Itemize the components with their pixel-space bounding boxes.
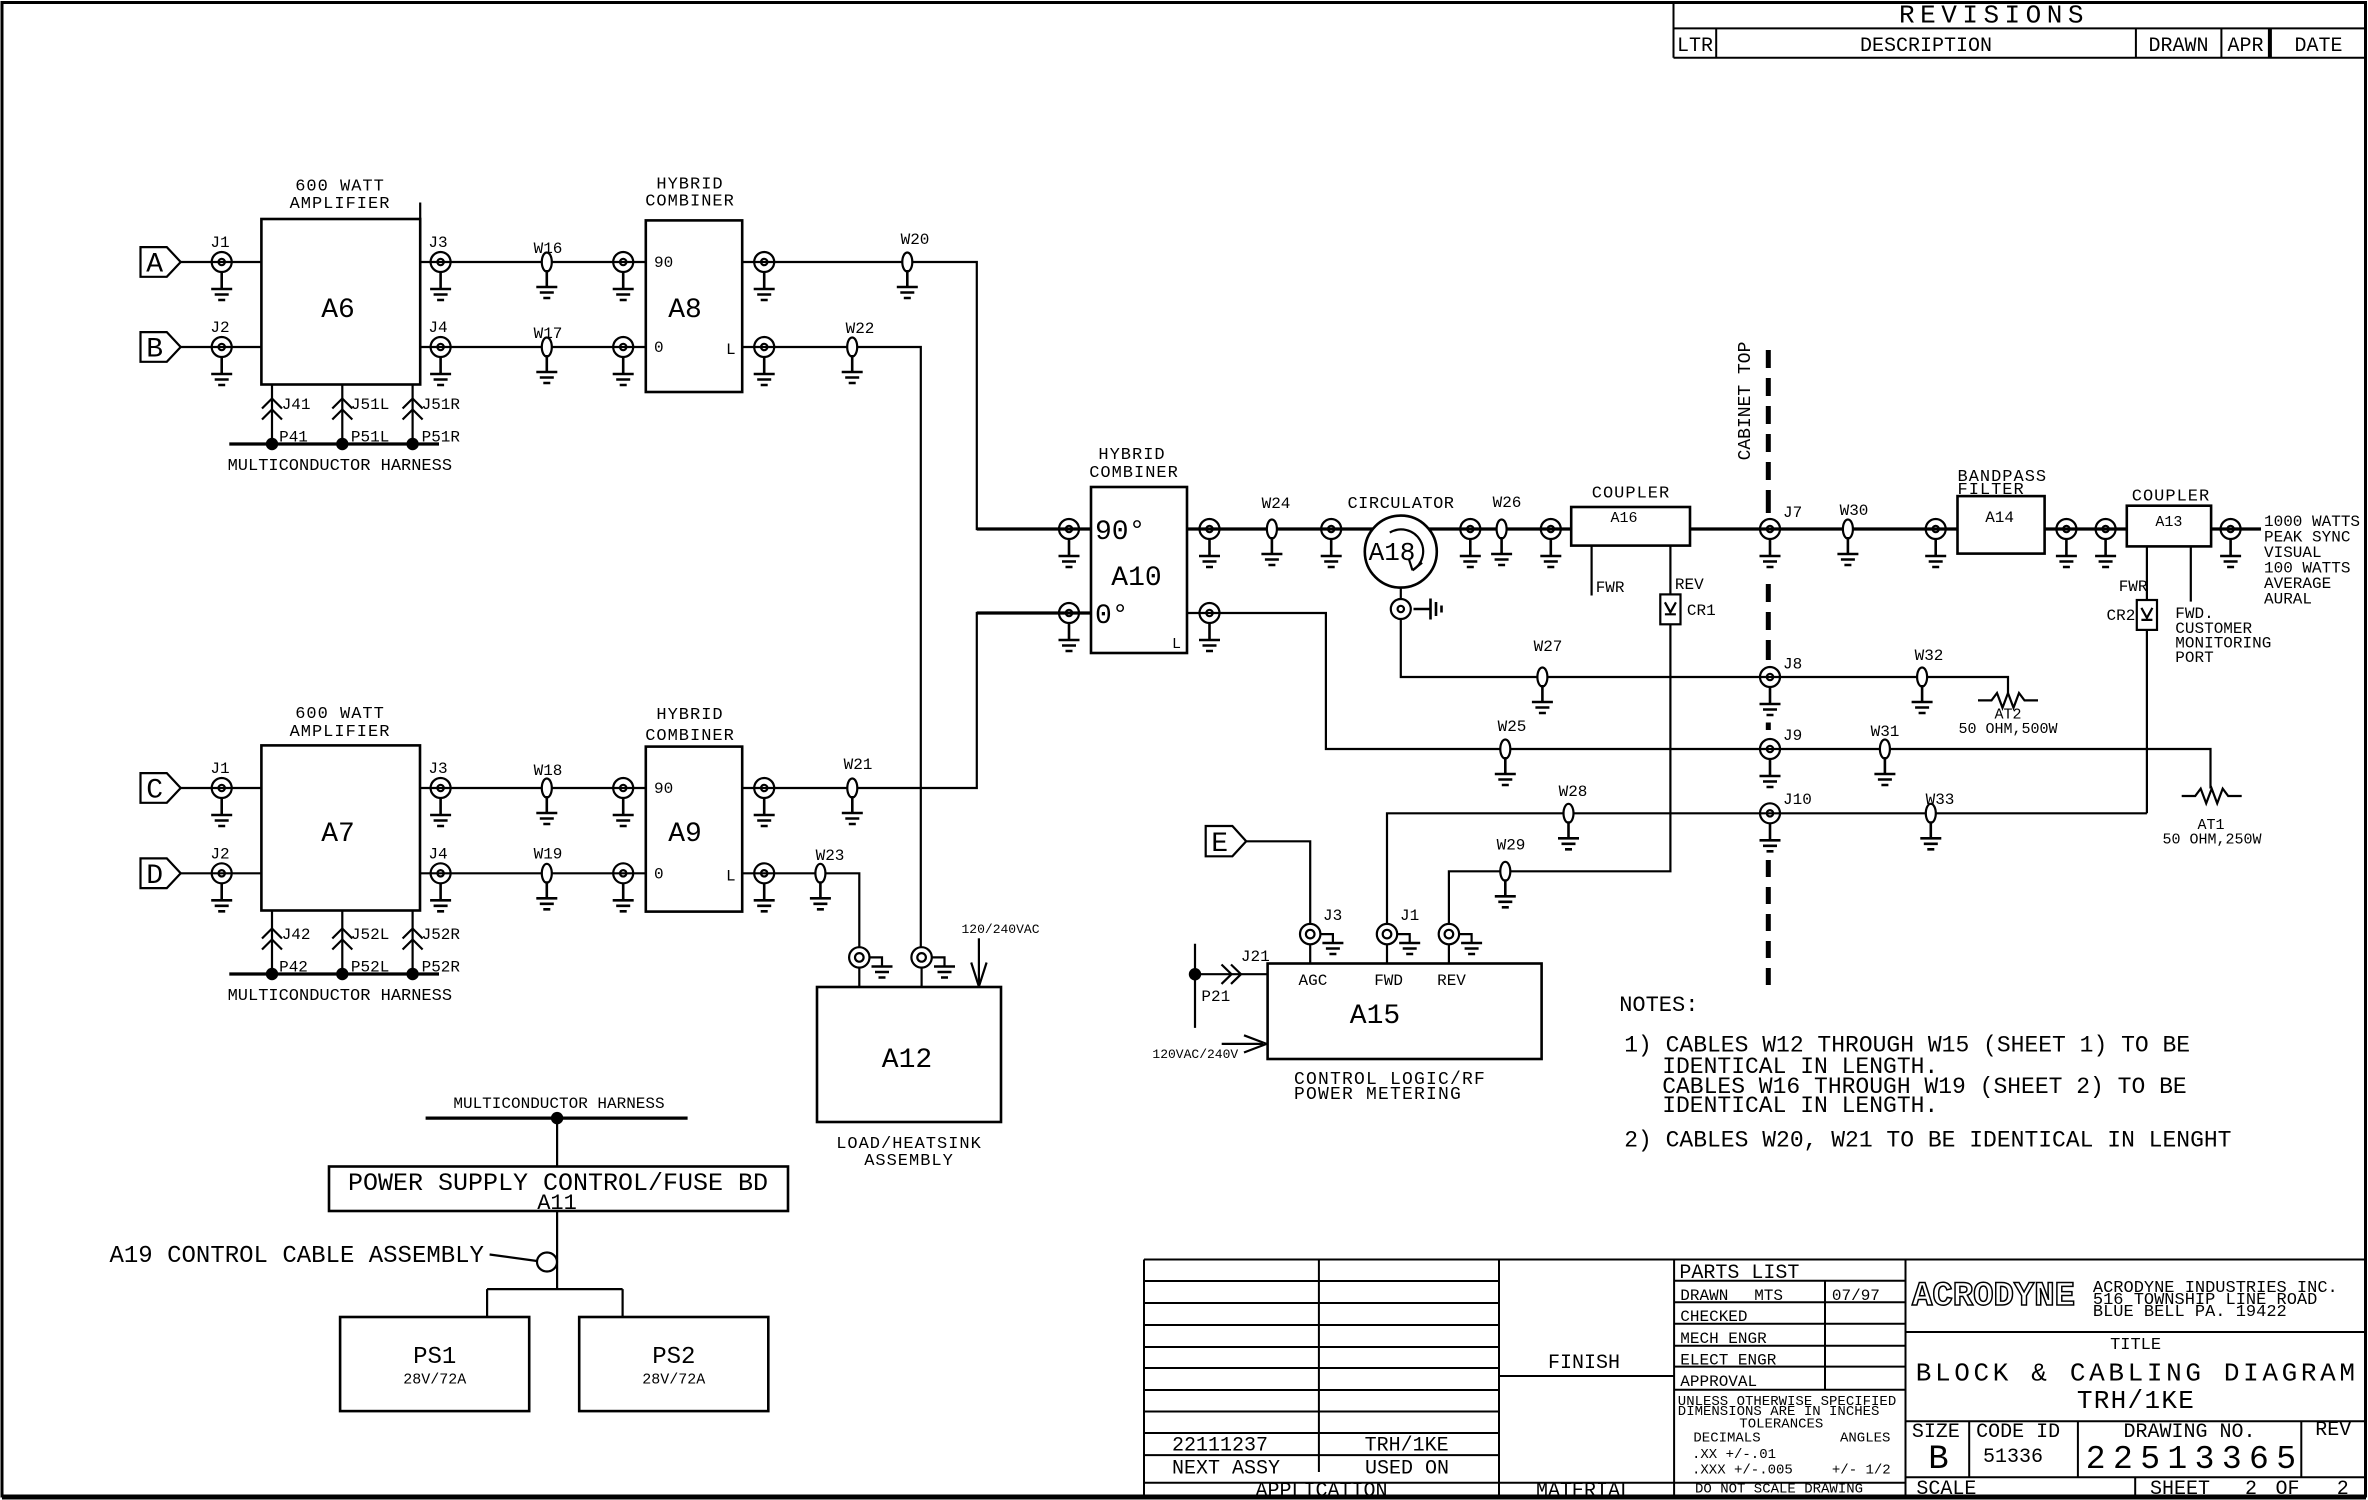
stem A15 REV to box	[1448, 944, 1450, 963]
junction on power harness	[551, 1112, 563, 1124]
svg-text:A10: A10	[1111, 563, 1161, 594]
svg-text:ASSEMBLY: ASSEMBLY	[864, 1152, 954, 1171]
svg-text:FWR: FWR	[1596, 579, 1625, 597]
svg-text:ANGLES: ANGLES	[1840, 1431, 1890, 1447]
svg-text:2: 2	[2245, 1478, 2257, 1500]
ground at W17	[536, 355, 557, 383]
svg-text:J42: J42	[282, 926, 311, 944]
svg-text:DECIMALS: DECIMALS	[1693, 1431, 1760, 1447]
svg-text:REV: REV	[1437, 972, 1466, 990]
connector at A10 0 input	[1059, 603, 1079, 623]
svg-text:J8: J8	[1783, 656, 1802, 674]
svg-text:J1: J1	[210, 760, 229, 778]
svg-text:90°: 90°	[1095, 517, 1145, 548]
cable W17	[534, 325, 563, 357]
svg-text:NOTES:: NOTES:	[1619, 993, 1698, 1018]
ground at connector before A14	[1925, 539, 1946, 567]
svg-text:REVISIONS: REVISIONS	[1899, 1, 2089, 31]
svg-text:W18: W18	[534, 762, 563, 780]
svg-text:J4: J4	[428, 845, 447, 863]
svg-text:.XX +/-.01: .XX +/-.01	[1692, 1447, 1776, 1463]
connector J42/P42	[262, 926, 311, 977]
stem A15 J1 to box	[1386, 944, 1388, 963]
amplifier A6	[261, 178, 420, 385]
coupler A16	[1571, 485, 1690, 546]
ground at A8 90 input connector	[613, 272, 634, 300]
cable W30	[1840, 502, 1869, 539]
junction at J51L	[336, 438, 348, 450]
ground at W18	[536, 796, 557, 824]
svg-text:MULTICONDUCTOR HARNESS: MULTICONDUCTOR HARNESS	[453, 1095, 664, 1113]
ground at connector after A14	[2056, 539, 2077, 567]
junction at J52L	[336, 968, 348, 980]
connector J1 (A7 input)	[210, 760, 231, 798]
A16 FWR stub	[1592, 546, 1625, 597]
connector J2 (A6 input)	[210, 319, 231, 357]
ground at J1	[211, 272, 232, 300]
svg-text:0°: 0°	[1095, 601, 1129, 632]
svg-text:W22: W22	[846, 320, 875, 338]
svg-text:22513365: 22513365	[2086, 1441, 2304, 1478]
svg-text:COMBINER: COMBINER	[645, 727, 735, 746]
ground at W30	[1837, 537, 1858, 565]
svg-text:DATE: DATE	[2294, 35, 2342, 58]
svg-text:A19 CONTROL CABLE ASSEMBLY: A19 CONTROL CABLE ASSEMBLY	[110, 1243, 484, 1270]
connector J41/P41	[262, 396, 311, 447]
control logic/RF power metering A15	[1268, 964, 1542, 1106]
circulator A18	[1347, 495, 1454, 588]
ground at J9	[1760, 759, 1781, 787]
svg-text:L: L	[726, 867, 736, 885]
svg-text:FINISH: FINISH	[1548, 1352, 1620, 1375]
wire E flag to A15 AGC input J3	[1246, 841, 1310, 924]
svg-text:LTR: LTR	[1677, 35, 1713, 58]
multiconductor harness bus (bottom)	[228, 974, 452, 1006]
svg-text:CR1: CR1	[1687, 602, 1716, 620]
svg-text:W24: W24	[1262, 495, 1291, 513]
svg-text:L: L	[726, 341, 736, 359]
connector J2 (A7 input)	[210, 845, 231, 883]
chassis ground at A15 J3	[1320, 934, 1333, 942]
svg-text:W33: W33	[1926, 791, 1955, 809]
cable W22	[846, 320, 875, 357]
ground at connector before A13	[2095, 539, 2116, 567]
connector J3 (A7 output)	[428, 760, 450, 798]
ground at W21	[842, 796, 863, 824]
svg-text:120/240VAC: 120/240VAC	[962, 922, 1040, 937]
svg-text:J1: J1	[210, 234, 229, 252]
chassis ground at A12 right connector	[932, 957, 945, 966]
wire circulator to coupler A16 (main RF)	[1429, 527, 1571, 530]
svg-text:.XXX +/-.005: .XXX +/-.005	[1692, 1463, 1793, 1479]
ground at W26	[1491, 537, 1512, 565]
svg-text:W26: W26	[1493, 494, 1522, 512]
120/240VAC feed arrow into A12	[962, 922, 1040, 987]
connector at A15 REV input	[1439, 924, 1459, 944]
svg-text:W30: W30	[1840, 502, 1869, 520]
ground at W24	[1261, 537, 1282, 565]
wire CR2 down to J10 row	[2146, 630, 2148, 813]
svg-text:90: 90	[654, 780, 673, 798]
connector at A10 90 output	[1200, 519, 1220, 539]
connector J3 (A15 AGC)	[1300, 907, 1342, 944]
multiconductor harness stubs J41 J51L J51R	[272, 385, 413, 445]
svg-text:28V/72A: 28V/72A	[403, 1372, 466, 1389]
wire input D to A7	[181, 872, 262, 874]
svg-text:2) CABLES W20, W21 TO BE IDENT: 2) CABLES W20, W21 TO BE IDENTICAL IN LE…	[1624, 1127, 2231, 1153]
wire CR1 through W29 to A15 REV input	[1449, 624, 1671, 924]
svg-text:AURAL: AURAL	[2264, 591, 2312, 609]
stem A12 left connector to box	[858, 968, 860, 987]
wire input B to A6	[181, 346, 262, 348]
ground at W16	[536, 270, 557, 298]
ground at A7 J3	[430, 798, 451, 826]
svg-text:MATERIAL: MATERIAL	[1536, 1480, 1632, 1500]
svg-text:W19: W19	[534, 846, 563, 864]
multiconductor harness stubs J42 J52L J52R	[272, 911, 413, 975]
wire harness to A11	[556, 1118, 558, 1166]
svg-text:J4: J4	[428, 319, 447, 337]
ground at W25	[1495, 757, 1516, 785]
wire circulator load port through W27 to J8 and AT2	[1401, 619, 2008, 693]
wire tee to PS1 and PS2	[487, 1289, 622, 1317]
wire A13 to RF output (main RF)	[2211, 527, 2261, 530]
svg-text:L: L	[1172, 636, 1181, 653]
svg-text:22111237: 22111237	[1172, 1435, 1268, 1458]
svg-text:0: 0	[654, 339, 664, 357]
svg-text:50 OHM,250W: 50 OHM,250W	[2162, 832, 2261, 849]
svg-text:J41: J41	[282, 396, 311, 414]
ground at A7 J1	[211, 798, 232, 826]
cable W27	[1534, 638, 1563, 687]
cable W20	[901, 231, 930, 272]
svg-text:W28: W28	[1559, 783, 1588, 801]
svg-text:J7: J7	[1783, 504, 1802, 522]
junction at P21	[1189, 968, 1201, 980]
ground at W20	[897, 270, 918, 298]
svg-text:AMPLIFIER: AMPLIFIER	[290, 723, 391, 742]
svg-text:APPROVAL: APPROVAL	[1680, 1373, 1757, 1391]
connector at A9 90 input	[613, 778, 633, 798]
ground at A7 J4	[430, 883, 451, 911]
wire feed into A10 90 input (thick)	[977, 527, 1091, 530]
connector before A14	[1926, 519, 1946, 539]
title block	[1144, 1260, 2365, 1500]
svg-text:USED ON: USED ON	[1365, 1457, 1449, 1480]
ground at A9 0 input connector	[613, 883, 634, 911]
detector CR1	[1660, 594, 1715, 624]
svg-text:CR2: CR2	[2107, 607, 2136, 625]
svg-text:J2: J2	[210, 319, 229, 337]
svg-text:COUPLER: COUPLER	[1592, 485, 1670, 504]
svg-text:APPLICATION: APPLICATION	[1255, 1480, 1387, 1500]
chassis ground at A12 left connector	[870, 957, 883, 966]
node C input flag	[141, 773, 181, 806]
svg-text:FWD: FWD	[1374, 972, 1403, 990]
ground at A10 0 input connector	[1059, 623, 1080, 651]
connector before A13	[2096, 519, 2116, 539]
ground at A10 0 output connector	[1199, 623, 1220, 651]
svg-text:B: B	[146, 335, 163, 366]
cable W19	[534, 846, 563, 883]
wire A11 to power supplies	[556, 1211, 558, 1289]
svg-text:ELECT ENGR: ELECT ENGR	[1680, 1352, 1776, 1370]
ground at A10 90 input connector	[1059, 539, 1080, 567]
svg-text:HYBRID: HYBRID	[656, 706, 723, 725]
svg-text:DRAWN: DRAWN	[1680, 1287, 1728, 1305]
svg-text:51336: 51336	[1983, 1446, 2043, 1469]
ground at J4	[430, 357, 451, 385]
svg-text:CODE ID: CODE ID	[1976, 1421, 2060, 1444]
wire A14 to coupler A13 (main RF)	[2045, 527, 2127, 530]
svg-text:PS2: PS2	[652, 1344, 695, 1371]
svg-text:J1: J1	[1400, 907, 1419, 925]
wire A8 L output through W22 down to A12	[742, 347, 921, 947]
ground at W19	[536, 881, 557, 909]
svg-text:REV: REV	[1675, 576, 1704, 594]
wire A9 L output through W23 down to A12	[742, 873, 859, 947]
ground at A9 90 input connector	[613, 798, 634, 826]
power supply PS1	[340, 1317, 529, 1411]
svg-text:J52R: J52R	[422, 926, 461, 944]
ground at A8 0 input connector	[613, 357, 634, 385]
coupler A13	[2127, 488, 2211, 547]
connector J52R/P52R	[403, 926, 461, 977]
ground at A8 L output connector	[754, 357, 775, 385]
A16 REV stub to CR1	[1670, 546, 1704, 595]
svg-text:2: 2	[2337, 1478, 2349, 1500]
svg-text:W31: W31	[1871, 723, 1900, 741]
ground at A7 J2	[211, 883, 232, 911]
ground at W33	[1920, 821, 1941, 849]
cable W25	[1498, 718, 1527, 759]
wire A6 J4 to hybrid combiner A8	[420, 346, 646, 348]
svg-text:J52L: J52L	[351, 926, 389, 944]
svg-text:A12: A12	[882, 1045, 932, 1076]
svg-text:MULTICONDUCTOR HARNESS: MULTICONDUCTOR HARNESS	[228, 987, 452, 1006]
ground at output connector	[2220, 539, 2241, 567]
load/heatsink assembly A12	[817, 987, 1001, 1171]
svg-text:TITLE: TITLE	[2110, 1336, 2161, 1355]
cable W18	[534, 762, 563, 798]
svg-text:HYBRID: HYBRID	[1098, 446, 1165, 465]
svg-text:28V/72A: 28V/72A	[642, 1372, 705, 1389]
svg-text:J51L: J51L	[351, 396, 389, 414]
connector J1 (A15 FWD)	[1377, 907, 1419, 944]
hybrid combiner A10	[1089, 446, 1187, 653]
svg-text:APR: APR	[2227, 35, 2263, 58]
connector J51L/P51L	[332, 396, 389, 447]
wire A8 90 output through W20 to A10 90 input	[742, 262, 1091, 529]
ground at connector before A16	[1540, 539, 1561, 567]
svg-text:AMPLIFIER: AMPLIFIER	[290, 195, 391, 214]
svg-text:600 WATT: 600 WATT	[295, 178, 385, 197]
120VAC/240V feed arrow into A15	[1152, 1035, 1266, 1062]
cable W23	[815, 847, 844, 883]
svg-text:A13: A13	[2155, 514, 2182, 531]
svg-text:J2: J2	[210, 845, 229, 863]
svg-text:MECH ENGR: MECH ENGR	[1680, 1330, 1767, 1348]
svg-text:W17: W17	[534, 325, 563, 343]
svg-text:P21: P21	[1201, 988, 1230, 1006]
connector J4 (A6 output)	[428, 319, 450, 357]
connector at A12 right input	[911, 947, 931, 967]
connector J4 (A7 output)	[428, 845, 450, 883]
svg-text:MTS: MTS	[1754, 1287, 1783, 1305]
amplifier A7	[261, 705, 420, 911]
svg-text:J3: J3	[1323, 907, 1342, 925]
node D input flag	[141, 858, 181, 891]
svg-text:FWR: FWR	[2119, 578, 2148, 596]
svg-text:REV: REV	[2315, 1419, 2351, 1442]
svg-text:J10: J10	[1783, 791, 1812, 809]
node E input flag	[1206, 826, 1247, 860]
cable W33	[1926, 791, 1955, 823]
wire A6 J3 to hybrid combiner A8	[420, 261, 646, 263]
ground at A10 90 output connector	[1199, 539, 1220, 567]
connector J1 (A6 input)	[210, 234, 231, 272]
revisions table	[1674, 1, 2366, 59]
svg-text:J9: J9	[1783, 727, 1802, 745]
connector after A14	[2056, 519, 2076, 539]
detector CR2	[2107, 600, 2158, 630]
junction at J41	[266, 438, 278, 450]
svg-text:A14: A14	[1985, 509, 2014, 527]
svg-text:PORT: PORT	[2175, 649, 2213, 667]
power supply PS2	[579, 1317, 768, 1411]
connector before coupler A16	[1541, 519, 1561, 539]
connector at A8 L output	[754, 337, 774, 357]
attenuator AT2 50 OHM,500W	[1958, 693, 2057, 738]
svg-text:PS1: PS1	[413, 1344, 456, 1371]
ground at W29	[1495, 879, 1516, 907]
connector J9	[1760, 727, 1802, 759]
svg-text:MULTICONDUCTOR HARNESS: MULTICONDUCTOR HARNESS	[228, 457, 452, 476]
ground at connector before circulator	[1321, 539, 1342, 567]
junction at J52R	[406, 968, 418, 980]
svg-text:AGC: AGC	[1299, 972, 1328, 990]
A19 control cable assembly callout	[110, 1243, 558, 1272]
connector at A9 L output	[754, 863, 774, 883]
A13 customer monitoring port stub	[2175, 546, 2271, 667]
connector at RF output	[2221, 519, 2241, 539]
junction at J51R	[406, 438, 418, 450]
connector at circulator load port	[1391, 599, 1411, 619]
wire A7 J4 to hybrid combiner A9	[420, 872, 646, 874]
chassis ground at A15 REV connector	[1459, 934, 1472, 942]
ground at W28	[1558, 821, 1579, 849]
svg-text:J51R: J51R	[422, 396, 461, 414]
svg-text:W20: W20	[901, 231, 930, 249]
connector J8	[1760, 656, 1802, 688]
multiconductor harness bus (top)	[228, 444, 452, 476]
ground at J8	[1760, 687, 1781, 715]
connector at A10 90 input	[1059, 519, 1079, 539]
svg-text:PARTS LIST: PARTS LIST	[1679, 1262, 1799, 1285]
svg-text:W25: W25	[1498, 718, 1527, 736]
connector at A9 0 input	[613, 863, 633, 883]
svg-text:CHECKED: CHECKED	[1680, 1308, 1747, 1326]
svg-text:SHEET: SHEET	[2150, 1478, 2210, 1500]
cable W28	[1559, 783, 1588, 823]
svg-text:TRH/1KE: TRH/1KE	[2077, 1386, 2195, 1416]
svg-text:90: 90	[654, 254, 673, 272]
wire input C to A7	[181, 787, 262, 789]
wire input A to A6	[181, 261, 262, 263]
wire feed into A10 0 input (thick)	[977, 611, 1091, 614]
bandpass filter A14	[1958, 468, 2048, 554]
svg-text:W16: W16	[534, 240, 563, 258]
wire A10 90 output to circulator (main RF)	[1187, 527, 1373, 530]
svg-text:POWER METERING: POWER METERING	[1294, 1085, 1462, 1105]
svg-text:CABINET TOP: CABINET TOP	[1736, 342, 1756, 461]
ground at connector after circulator	[1460, 539, 1481, 567]
wire A15 FWD input through W28 to J10	[1387, 813, 2147, 924]
connector at A8 90 output	[754, 252, 774, 272]
ground at A9 90 output connector	[754, 798, 775, 826]
svg-text:DESCRIPTION: DESCRIPTION	[1860, 35, 1992, 58]
svg-text:50 OHM,500W: 50 OHM,500W	[1958, 721, 2057, 738]
stem A15 J3 to box	[1309, 944, 1311, 963]
attenuator AT1 50 OHM,250W	[2162, 789, 2261, 849]
svg-text:B: B	[1928, 1441, 1948, 1479]
junction at J42	[266, 968, 278, 980]
ground at J2	[211, 357, 232, 385]
hybrid combiner A9	[645, 706, 742, 912]
ground at W23	[810, 881, 831, 909]
ground at J10	[1760, 823, 1781, 851]
connector J3 (A6 output)	[428, 234, 450, 272]
svg-text:J3: J3	[428, 234, 447, 252]
multiconductor harness bus (power supply)	[426, 1095, 688, 1118]
svg-text:120VAC/240V: 120VAC/240V	[1152, 1047, 1238, 1062]
circulator load port stem	[1400, 588, 1402, 599]
connector J52L/P52L	[332, 926, 389, 977]
svg-text:A7: A7	[321, 819, 355, 850]
svg-text:OF: OF	[2276, 1478, 2300, 1500]
svg-text:A16: A16	[1610, 510, 1637, 527]
notes text	[1619, 993, 2231, 1153]
ground at W32	[1912, 685, 1933, 713]
svg-text:FILTER: FILTER	[1958, 481, 2025, 500]
cable W24	[1262, 495, 1291, 539]
termination ground at circulator load port	[1414, 599, 1442, 620]
svg-text:COUPLER: COUPLER	[2132, 488, 2210, 507]
wire A7 J3 to hybrid combiner A9	[420, 787, 646, 789]
node A input flag	[141, 247, 181, 280]
ground at W22	[842, 355, 863, 383]
power supply control/fuse board A11	[329, 1167, 788, 1217]
cable W16	[534, 240, 563, 272]
svg-text:600 WATT: 600 WATT	[295, 705, 385, 724]
connector at A8 0 input	[613, 337, 633, 357]
connector before circulator	[1321, 519, 1341, 539]
svg-text:A18: A18	[1369, 538, 1416, 568]
ground at J3	[430, 272, 451, 300]
wire A16 to J7 to bandpass filter A14 (main RF)	[1690, 527, 1958, 530]
ground at J7	[1760, 539, 1781, 567]
svg-text:TRH/1KE: TRH/1KE	[1365, 1435, 1449, 1458]
svg-text:DO NOT SCALE DRAWING: DO NOT SCALE DRAWING	[1695, 1482, 1863, 1498]
ground at W31	[1874, 757, 1895, 785]
cable W32	[1915, 647, 1944, 687]
connector J10	[1760, 791, 1812, 823]
connector at A9 90 output	[754, 778, 774, 798]
wire A10 0 output through W25 to J9 and AT1	[1187, 613, 2211, 789]
connector at A8 90 input	[613, 252, 633, 272]
svg-text:J3: J3	[428, 760, 447, 778]
wire A9 90 output through W21 up to A10 0 input	[742, 613, 1091, 788]
